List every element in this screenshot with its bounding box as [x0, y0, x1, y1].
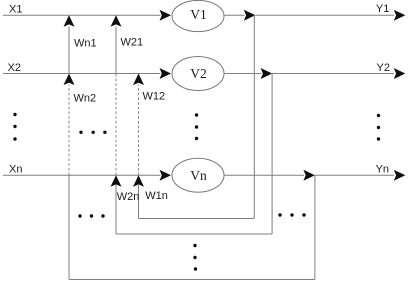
svg-text:Yn: Yn [376, 163, 389, 175]
wire X1 input line [3, 14, 161, 16]
neuron V2 [172, 57, 224, 91]
svg-text:W21: W21 [121, 37, 144, 49]
ellipsis left column [13, 113, 16, 141]
ellipsis bottom-center column [193, 244, 197, 271]
wire Vn feedback rise [68, 175, 70, 279]
svg-text:Wn2: Wn2 [74, 92, 97, 104]
ellipsis bottom-left horizontal [78, 214, 104, 217]
wire Xn input line [3, 174, 161, 176]
svg-text:Y2: Y2 [377, 62, 390, 74]
arrow W21 into X1 [111, 15, 122, 27]
wire Vn feedback drop [314, 175, 316, 279]
neuron Vn [172, 158, 224, 192]
ellipsis right column below Y2 [377, 114, 380, 141]
wire Vn feedback dashed segment [68, 85, 70, 175]
arrow junction V1 [244, 10, 256, 21]
arrow junction V2 [261, 68, 273, 79]
wire V1 feedback rise [138, 185, 140, 219]
wire V2 feedback upper solid segment [115, 27, 117, 74]
wire Y1 output line [255, 14, 394, 16]
wire Vn output to junction [224, 174, 304, 176]
arrow Y2 output [394, 68, 406, 79]
arrow W12 into X2 [133, 74, 144, 86]
arrow Y1 output [394, 10, 406, 21]
wire Vn feedback upper solid segment [68, 27, 70, 74]
svg-text:Y1: Y1 [376, 3, 389, 15]
wire V1 output to junction [224, 14, 245, 16]
arrow Wn2 into X2 [64, 74, 75, 86]
wire Y2 output line [272, 73, 394, 75]
wire V1 feedback bottom [139, 218, 255, 220]
ellipsis below V2 [195, 113, 198, 140]
wire V2 output to junction [224, 73, 261, 75]
arrow W1n into Xn [133, 175, 144, 187]
wire V2 feedback dashed segment [115, 74, 117, 176]
wire V1 feedback drop [253, 15, 255, 218]
arrow Yn output [394, 170, 406, 181]
wire V2 feedback rise [115, 185, 117, 234]
wire V2 feedback bottom [116, 233, 272, 235]
svg-text:V2: V2 [190, 66, 207, 81]
svg-text:X1: X1 [9, 4, 22, 16]
svg-text:W1n: W1n [145, 190, 168, 202]
arrow Wn1 into X1 [64, 15, 75, 27]
wire V1 feedback dashed segment [138, 85, 140, 175]
ellipsis mid-left horizontal [79, 131, 106, 134]
svg-text:Wn1: Wn1 [74, 37, 97, 49]
wire X2 input line [3, 73, 161, 75]
wire Yn output line [315, 174, 394, 176]
ellipsis bottom-right horizontal [278, 213, 305, 216]
arrow junction Vn [303, 170, 315, 181]
svg-text:Vn: Vn [190, 168, 207, 183]
arrow W2n into Xn [111, 175, 122, 187]
arrow into V1 [160, 10, 172, 21]
svg-text:W12: W12 [143, 90, 166, 102]
svg-text:W2n: W2n [117, 191, 140, 203]
svg-text:X2: X2 [8, 62, 21, 74]
arrow into V2 [160, 68, 172, 79]
arrow into Vn [160, 170, 172, 181]
wire V2 feedback drop [271, 74, 273, 235]
svg-text:V1: V1 [190, 7, 207, 22]
neuron V1 [172, 0, 224, 31]
svg-text:Xn: Xn [9, 163, 22, 175]
wire Vn feedback bottom [69, 279, 315, 281]
